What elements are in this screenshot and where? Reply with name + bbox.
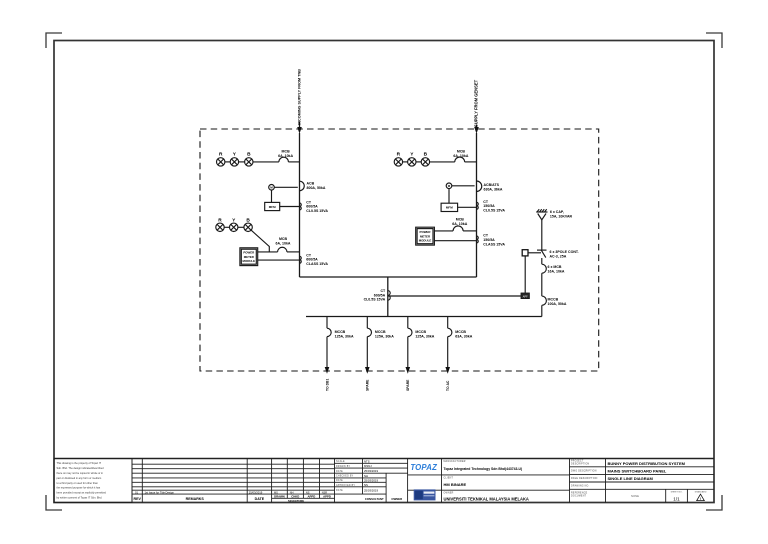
- node incoming TNB supply (arrow + label): [297, 69, 302, 134]
- svg-text:APF: APF: [523, 296, 528, 299]
- svg-text:R: R: [397, 151, 401, 157]
- op mechanism M circle ACB: [269, 185, 298, 203]
- svg-text:REFERENCE: REFERENCE: [571, 493, 588, 495]
- svg-text:CL0.5S 15VA: CL0.5S 15VA: [483, 209, 505, 213]
- svg-text:been provided except as explic: been provided except as explicitly permi…: [57, 491, 107, 495]
- svg-text:CL0.5S 15VA: CL0.5S 15VA: [306, 209, 328, 213]
- MCB capacitor steps 6x16A: [542, 264, 565, 274]
- title block company column: [442, 459, 570, 503]
- svg-text:DRAWN BY: DRAWN BY: [336, 465, 351, 468]
- svg-text:TO DB1: TO DB1: [325, 379, 329, 391]
- CT protection TNB: [300, 253, 329, 266]
- capacitor bank branch wire: [541, 305, 543, 316]
- title block description column: [570, 459, 715, 503]
- svg-text:MODULE: MODULE: [243, 259, 256, 263]
- feeder 3 MCCB 125A: [406, 317, 435, 392]
- svg-text:NTS: NTS: [364, 459, 370, 463]
- svg-text:125A, 30kA: 125A, 30kA: [415, 335, 434, 339]
- svg-text:to a third party or used for o: to a third party or used for other than: [57, 481, 99, 485]
- svg-text:CHECKED BY: CHECKED BY: [336, 476, 354, 478]
- wire central riser: [387, 277, 389, 317]
- svg-text:APPD: APPD: [323, 495, 331, 499]
- svg-text:15A, 10KVAR: 15A, 10KVAR: [550, 215, 573, 219]
- wire TNB incoming drop: [299, 133, 301, 277]
- svg-text:part or disclosed in any form: part or disclosed in any form or medium: [57, 476, 102, 480]
- svg-text:01: 01: [135, 490, 138, 494]
- node genset supply (arrow + label): [474, 79, 479, 133]
- svg-text:APPD: APPD: [308, 495, 316, 499]
- CT protection genset: [477, 234, 506, 247]
- contactor control box: [522, 250, 541, 256]
- power meter module (genset): [416, 227, 477, 245]
- title block revision entry 01: [135, 490, 327, 494]
- svg-text:MCCB: MCCB: [455, 330, 466, 334]
- indicator lamps R Y B (PMM TNB): [216, 218, 253, 232]
- svg-text:MANUFACTURER: MANUFACTURER: [444, 460, 466, 463]
- svg-text:SHEET NO.: SHEET NO.: [671, 491, 683, 493]
- CT main riser: [364, 289, 391, 302]
- wire lamp tap diagonal: [251, 230, 269, 252]
- svg-text:NH: NH: [364, 474, 368, 478]
- indicator lamps R Y B (TNB): [217, 151, 254, 166]
- CT metering genset: [477, 200, 506, 213]
- capacitor bank 6x10KVAR: [536, 209, 572, 220]
- title block sheet cells: [666, 489, 707, 502]
- svg-text:MCB: MCB: [456, 217, 465, 221]
- svg-text:OWNER: OWNER: [444, 493, 454, 495]
- MCB PMM circuit TNB 6A 10kA: [258, 237, 300, 252]
- svg-text:UNIVERSITI TEKNIKAL MALAYSIA M: UNIVERSITI TEKNIKAL MALAYSIA MELAKA: [444, 496, 529, 501]
- svg-text:100A, 50kA: 100A, 50kA: [548, 302, 567, 306]
- svg-text:DOCUMENT: DOCUMENT: [571, 496, 587, 498]
- MSB panel dashed boundary: [200, 129, 599, 371]
- svg-text:MODULE: MODULE: [419, 239, 432, 243]
- svg-text:630A, 36kA: 630A, 36kA: [484, 187, 503, 191]
- ACB 800A incomer: [300, 181, 326, 191]
- indicator lamps R Y B (genset): [394, 151, 429, 166]
- corner mark bottom-right: [706, 495, 722, 510]
- svg-text:6A, 10kA: 6A, 10kA: [278, 154, 293, 158]
- svg-text:MFM: MFM: [269, 205, 276, 209]
- svg-text:MCCB: MCCB: [375, 330, 386, 334]
- MCB lamp circuit TNB 6A 10kA: [253, 150, 300, 162]
- svg-text:TOPAZ: TOPAZ: [410, 463, 437, 472]
- svg-text:APPROVED BY: APPROVED BY: [336, 484, 355, 487]
- svg-text:STANDARD: STANDARD: [695, 490, 707, 493]
- svg-text:DATE: DATE: [336, 479, 343, 482]
- svg-text:CHKD: CHKD: [291, 495, 299, 499]
- svg-text:SCALE: SCALE: [336, 460, 345, 463]
- svg-text:ACB: ACB: [307, 182, 315, 186]
- svg-text:25/03/2019: 25/03/2019: [364, 469, 378, 473]
- svg-text:BUNNY POWER DISTRIBUTION SYSTE: BUNNY POWER DISTRIBUTION SYSTEM: [608, 461, 686, 466]
- wire APFC relay tap: [388, 295, 521, 297]
- svg-text:Topaz Integrated Technology Sd: Topaz Integrated Technology Sdn Bhd(4437…: [444, 467, 523, 471]
- wire top bus tie: [300, 276, 477, 278]
- svg-text:NS: NS: [364, 483, 368, 487]
- svg-text:SPARE: SPARE: [406, 379, 410, 391]
- svg-text:SPARE: SPARE: [366, 379, 370, 391]
- svg-text:B: B: [247, 151, 251, 157]
- wire cap branch upper: [541, 258, 543, 264]
- logo UTeM: [414, 489, 436, 500]
- svg-text:800A, 50kA: 800A, 50kA: [307, 186, 326, 190]
- drawing frame border: [54, 41, 714, 503]
- svg-text:there on may not be copied in: there on may not be copied in whole or i…: [57, 471, 104, 475]
- feeder 4 MCCB 63A: [445, 317, 472, 392]
- meter MFM (TNB): [265, 202, 300, 210]
- CT metering TNB: [300, 200, 329, 213]
- svg-text:by written consent of Topaz IT: by written consent of Topaz IT Sdn. Bhd.: [57, 496, 103, 500]
- title block revision headers: [134, 495, 331, 504]
- feeder 2 MCCB 125A: [365, 317, 394, 392]
- svg-text:AC-3, 25A: AC-3, 25A: [550, 254, 567, 258]
- meter MFM (genset): [441, 203, 476, 211]
- svg-text:DATE: DATE: [336, 470, 343, 473]
- svg-text:the expressed purpose for whic: the expressed purpose for which it has: [57, 486, 101, 490]
- svg-text:ACB/ATS: ACB/ATS: [484, 183, 500, 187]
- wire cap branch mid: [541, 273, 543, 296]
- title block revision table grid: [132, 459, 335, 503]
- svg-text:!: !: [700, 497, 701, 501]
- svg-text:CLIENT: CLIENT: [444, 477, 454, 479]
- title block: [54, 458, 714, 460]
- svg-text:6A, 10kA: 6A, 10kA: [452, 222, 467, 226]
- svg-text:This drawing is the property o: This drawing is the property of Topaz IT: [57, 461, 102, 465]
- svg-text:16A, 10kA: 16A, 10kA: [548, 270, 565, 274]
- svg-text:NONE: NONE: [631, 494, 639, 498]
- svg-text:1/1: 1/1: [673, 496, 680, 501]
- svg-text:DRAWN: DRAWN: [274, 495, 285, 499]
- svg-text:B: B: [424, 151, 428, 157]
- svg-text:6A, 10kA: 6A, 10kA: [276, 242, 291, 246]
- title block disclaimer note: [54, 459, 132, 503]
- svg-text:CLASS 15VA: CLASS 15VA: [483, 242, 505, 246]
- corner mark top-right: [706, 33, 722, 48]
- svg-text:6 x 3POLE CONT.: 6 x 3POLE CONT.: [550, 250, 579, 254]
- svg-text:MCCB: MCCB: [548, 298, 559, 302]
- svg-text:1st Issue for Title Design: 1st Issue for Title Design: [145, 490, 175, 494]
- power meter module (TNB): [240, 248, 300, 266]
- contactor 3pole: [537, 250, 579, 259]
- svg-text:Sdn. Bhd. The design indicated: Sdn. Bhd. The design indicated/described: [57, 466, 105, 470]
- MCCB genset incomer: [477, 181, 503, 192]
- svg-text:125A, 30kA: 125A, 30kA: [375, 335, 394, 339]
- svg-text:MSNJ: MSNJ: [364, 464, 372, 468]
- title block logo column: [408, 459, 442, 503]
- wire genset incoming drop: [476, 133, 478, 277]
- MCB PMM circuit genset 6A 10kA: [434, 217, 476, 231]
- MCCB capacitor branch 100A: [542, 296, 567, 306]
- svg-text:CLASS 15VA: CLASS 15VA: [306, 262, 328, 266]
- feeder 1 MCCB 125A: [325, 317, 354, 392]
- svg-text:SIGNATURE: SIGNATURE: [288, 499, 304, 503]
- svg-text:25/03/2019: 25/03/2019: [364, 488, 378, 492]
- svg-text:PAGE DESCRIPTION: PAGE DESCRIPTION: [571, 477, 598, 480]
- svg-text:63A, 30kA: 63A, 30kA: [455, 335, 472, 339]
- svg-text:DWG DESCRIPTION: DWG DESCRIPTION: [571, 471, 597, 473]
- svg-text:MCCB: MCCB: [335, 330, 346, 334]
- op mechanism M circle MCCB genset: [446, 183, 474, 203]
- svg-text:R: R: [219, 151, 223, 157]
- svg-text:MCB: MCB: [279, 237, 288, 241]
- logo TOPAZ: [410, 463, 437, 472]
- wire APFC control riser: [524, 256, 526, 293]
- svg-text:DATE: DATE: [336, 489, 343, 492]
- svg-text:SINGLE LINE DIAGRAM: SINGLE LINE DIAGRAM: [608, 476, 654, 481]
- svg-text:MFM: MFM: [446, 206, 453, 210]
- svg-text:REMARKS: REMARKS: [186, 497, 205, 501]
- svg-text:DESCRIPTION: DESCRIPTION: [571, 464, 590, 466]
- svg-text:25/03/2019: 25/03/2019: [364, 479, 378, 483]
- svg-text:DATE: DATE: [255, 497, 265, 501]
- svg-text:TO AC: TO AC: [446, 380, 450, 391]
- svg-text:CL0.5S 15VA: CL0.5S 15VA: [364, 298, 386, 302]
- title block approvals column: [335, 459, 408, 503]
- svg-text:6A, 10kA: 6A, 10kA: [453, 154, 468, 158]
- corner mark top-left: [46, 33, 62, 48]
- svg-text:REV: REV: [134, 497, 142, 501]
- svg-text:CONSULTANT: CONSULTANT: [365, 497, 384, 501]
- svg-text:HM BINARE: HM BINARE: [444, 482, 467, 487]
- svg-text:OWNER: OWNER: [391, 497, 402, 501]
- svg-text:DRAWING NO.: DRAWING NO.: [571, 485, 590, 488]
- corner mark bottom-left: [46, 495, 62, 510]
- APFC relay: [521, 293, 530, 299]
- MCB lamp circuit genset 6A 10kA: [430, 150, 477, 162]
- svg-text:PROJECT: PROJECT: [571, 461, 584, 463]
- svg-text:6 x CAP,: 6 x CAP,: [550, 210, 564, 214]
- wire cap branch top: [541, 220, 543, 250]
- main LV busbar: [306, 316, 542, 318]
- svg-text:MCCB: MCCB: [415, 330, 426, 334]
- svg-text:INCOMING SUPPLY FROM TNB: INCOMING SUPPLY FROM TNB: [298, 69, 302, 125]
- svg-text:25/03/2019: 25/03/2019: [249, 490, 263, 494]
- svg-text:125A, 30kA: 125A, 30kA: [335, 335, 354, 339]
- svg-text:MAINS SWITCHBOARD PANEL: MAINS SWITCHBOARD PANEL: [608, 468, 667, 473]
- svg-text:SUPPLY FROM GENSET: SUPPLY FROM GENSET: [474, 79, 479, 127]
- svg-text:6 x MCB: 6 x MCB: [548, 265, 562, 269]
